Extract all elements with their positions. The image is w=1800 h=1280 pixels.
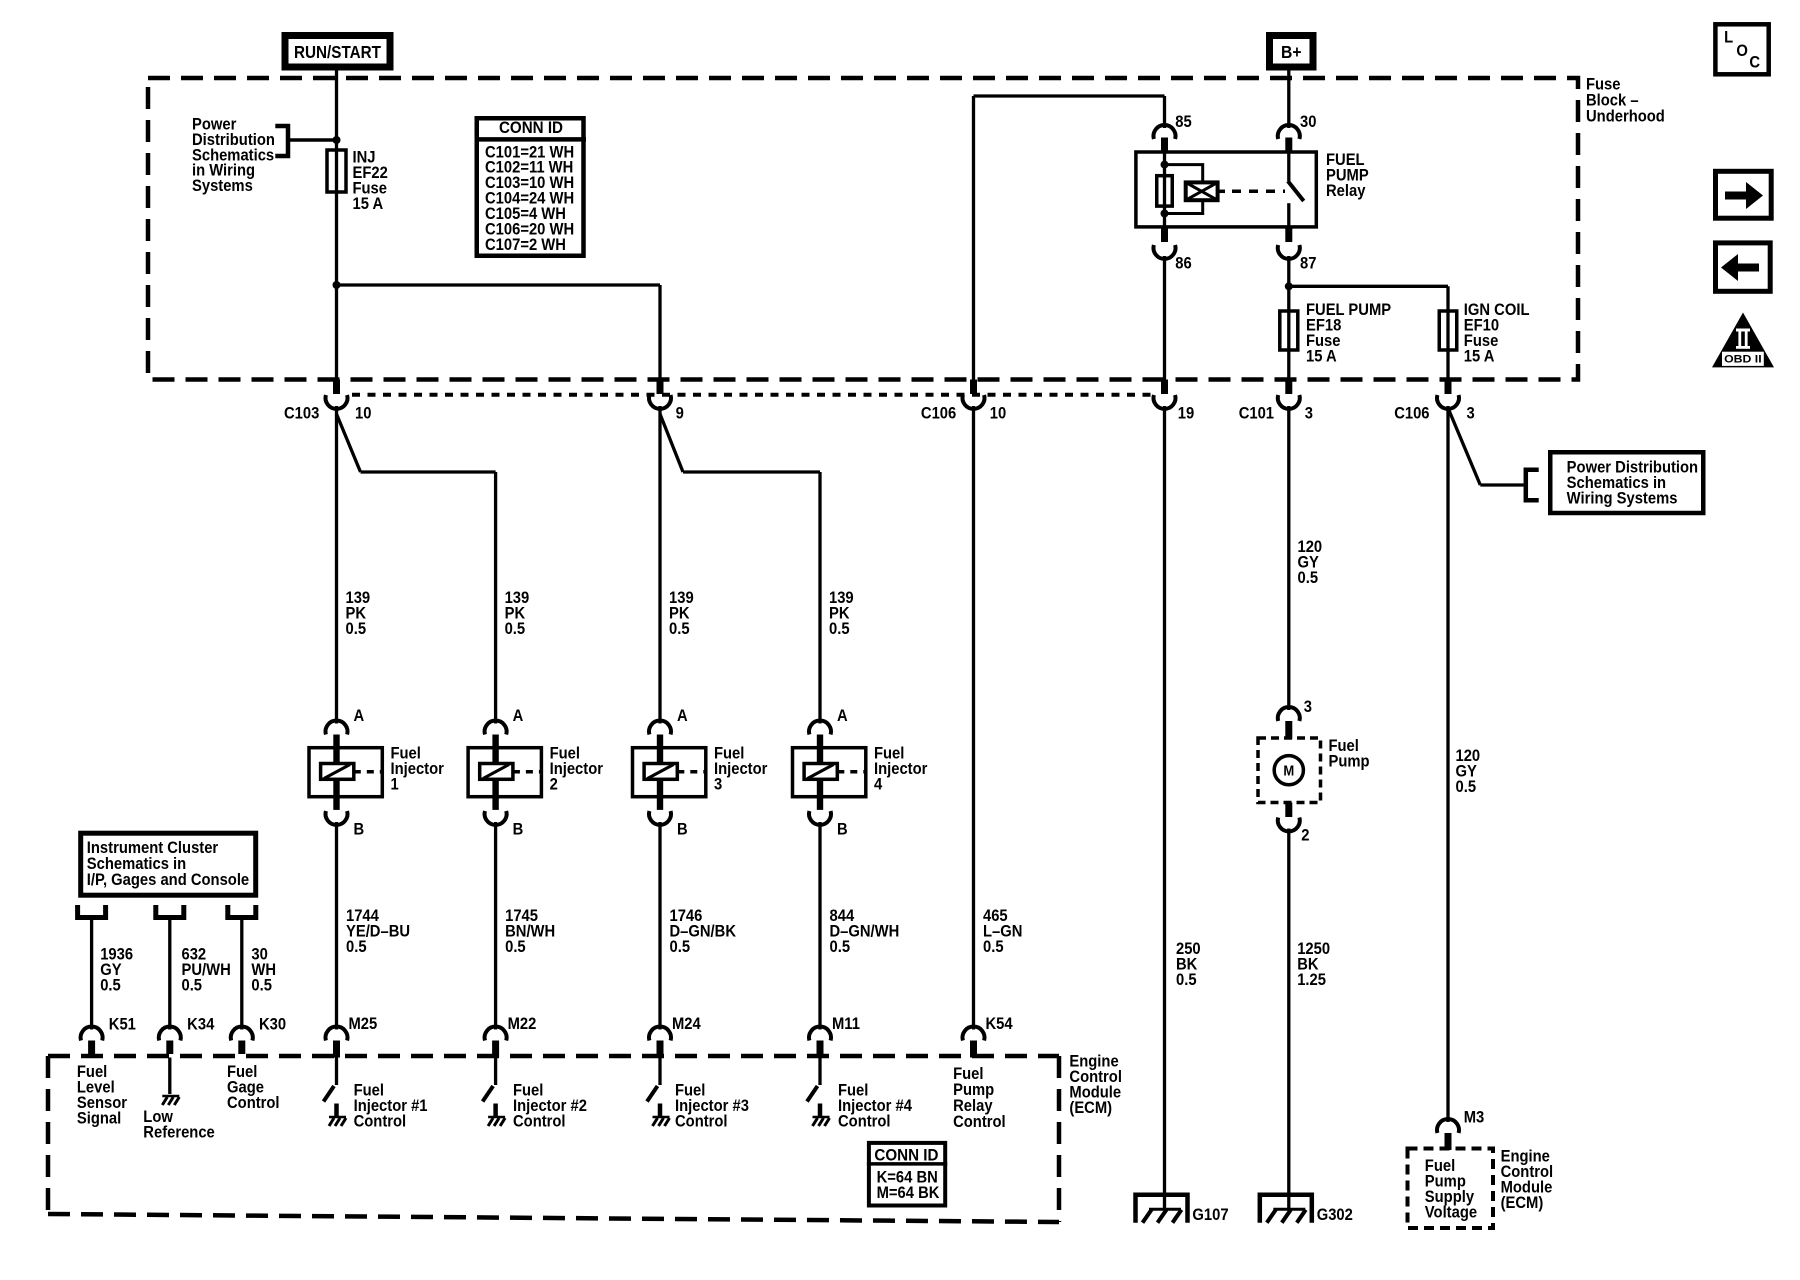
svg-text:A: A xyxy=(353,707,364,725)
svg-text:15 A: 15 A xyxy=(1306,347,1337,365)
svg-text:Control: Control xyxy=(953,1113,1006,1131)
svg-text:C106: C106 xyxy=(1394,405,1429,423)
svg-text:M25: M25 xyxy=(348,1015,377,1033)
svg-text:G302: G302 xyxy=(1317,1206,1353,1224)
svg-text:0.5: 0.5 xyxy=(1176,971,1197,989)
svg-text:Control: Control xyxy=(513,1113,566,1131)
svg-text:M24: M24 xyxy=(672,1015,701,1033)
svg-text:Voltage: Voltage xyxy=(1425,1204,1477,1222)
svg-text:(ECM): (ECM) xyxy=(1501,1194,1544,1212)
svg-text:3: 3 xyxy=(1304,698,1312,716)
svg-text:0.5: 0.5 xyxy=(829,620,850,638)
svg-text:15 A: 15 A xyxy=(352,195,383,213)
svg-text:0.5: 0.5 xyxy=(669,620,690,638)
svg-text:CONN ID: CONN ID xyxy=(499,119,563,137)
svg-text:A: A xyxy=(513,707,524,725)
svg-text:Systems: Systems xyxy=(192,177,253,195)
svg-text:87: 87 xyxy=(1300,254,1317,272)
svg-text:0.5: 0.5 xyxy=(669,938,690,956)
svg-text:Relay: Relay xyxy=(1326,182,1366,200)
svg-text:L: L xyxy=(1724,28,1733,46)
svg-text:CONN ID: CONN ID xyxy=(874,1147,938,1165)
svg-text:I/P, Gages and Console: I/P, Gages and Console xyxy=(87,871,249,889)
svg-text:M=64 BK: M=64 BK xyxy=(877,1184,940,1202)
svg-text:10: 10 xyxy=(355,405,372,423)
svg-text:M11: M11 xyxy=(832,1015,860,1033)
svg-text:0.5: 0.5 xyxy=(1456,778,1477,796)
svg-text:2: 2 xyxy=(1301,827,1309,845)
svg-text:Control: Control xyxy=(354,1113,407,1131)
svg-text:K30: K30 xyxy=(259,1015,286,1033)
svg-text:3: 3 xyxy=(714,776,722,794)
svg-text:M22: M22 xyxy=(508,1015,537,1033)
svg-text:0.5: 0.5 xyxy=(346,620,367,638)
svg-text:O: O xyxy=(1736,42,1748,60)
svg-text:B: B xyxy=(353,821,364,839)
svg-text:Wiring Systems: Wiring Systems xyxy=(1567,490,1678,508)
svg-text:3: 3 xyxy=(1466,405,1474,423)
svg-text:Signal: Signal xyxy=(77,1109,121,1127)
svg-text:B: B xyxy=(677,821,688,839)
svg-text:K54: K54 xyxy=(986,1015,1013,1033)
svg-text:B+: B+ xyxy=(1281,42,1302,62)
svg-text:C106: C106 xyxy=(921,405,956,423)
svg-text:0.5: 0.5 xyxy=(505,938,526,956)
svg-text:0.5: 0.5 xyxy=(983,938,1004,956)
svg-text:0.5: 0.5 xyxy=(100,977,121,995)
svg-text:86: 86 xyxy=(1175,254,1192,272)
svg-text:A: A xyxy=(837,707,848,725)
svg-text:Control: Control xyxy=(227,1094,280,1112)
svg-text:0.5: 0.5 xyxy=(505,620,526,638)
svg-text:1: 1 xyxy=(390,776,398,794)
svg-text:3: 3 xyxy=(1305,405,1313,423)
svg-text:85: 85 xyxy=(1175,113,1192,131)
svg-text:0.5: 0.5 xyxy=(181,977,202,995)
svg-text:B: B xyxy=(837,821,848,839)
svg-text:9: 9 xyxy=(676,405,684,423)
svg-text:0.5: 0.5 xyxy=(1298,569,1319,587)
svg-text:0.5: 0.5 xyxy=(251,977,272,995)
svg-text:1.25: 1.25 xyxy=(1297,971,1326,989)
svg-text:C107=2 WH: C107=2 WH xyxy=(485,236,566,254)
svg-text:C101: C101 xyxy=(1239,405,1274,423)
svg-text:19: 19 xyxy=(1178,405,1195,423)
svg-text:K51: K51 xyxy=(109,1015,136,1033)
svg-text:C103: C103 xyxy=(284,405,319,423)
svg-text:4: 4 xyxy=(874,776,882,794)
svg-text:0.5: 0.5 xyxy=(346,938,367,956)
svg-text:0.5: 0.5 xyxy=(830,938,851,956)
svg-text:Underhood: Underhood xyxy=(1586,107,1665,125)
svg-text:Pump: Pump xyxy=(1328,752,1369,770)
svg-text:M3: M3 xyxy=(1464,1109,1485,1127)
svg-text:Control: Control xyxy=(675,1113,728,1131)
svg-text:OBD II: OBD II xyxy=(1724,354,1762,366)
svg-text:RUN/START: RUN/START xyxy=(294,42,382,62)
svg-text:15 A: 15 A xyxy=(1464,347,1495,365)
svg-text:C: C xyxy=(1749,54,1760,72)
svg-text:Control: Control xyxy=(838,1113,891,1131)
svg-text:B: B xyxy=(513,821,524,839)
svg-text:10: 10 xyxy=(990,405,1007,423)
svg-text:2: 2 xyxy=(550,776,558,794)
svg-text:K34: K34 xyxy=(187,1015,214,1033)
svg-text:30: 30 xyxy=(1300,113,1317,131)
svg-text:Reference: Reference xyxy=(143,1124,215,1142)
svg-text:M: M xyxy=(1283,762,1294,779)
svg-text:A: A xyxy=(677,707,688,725)
svg-text:G107: G107 xyxy=(1192,1206,1228,1224)
svg-text:(ECM): (ECM) xyxy=(1069,1099,1112,1117)
